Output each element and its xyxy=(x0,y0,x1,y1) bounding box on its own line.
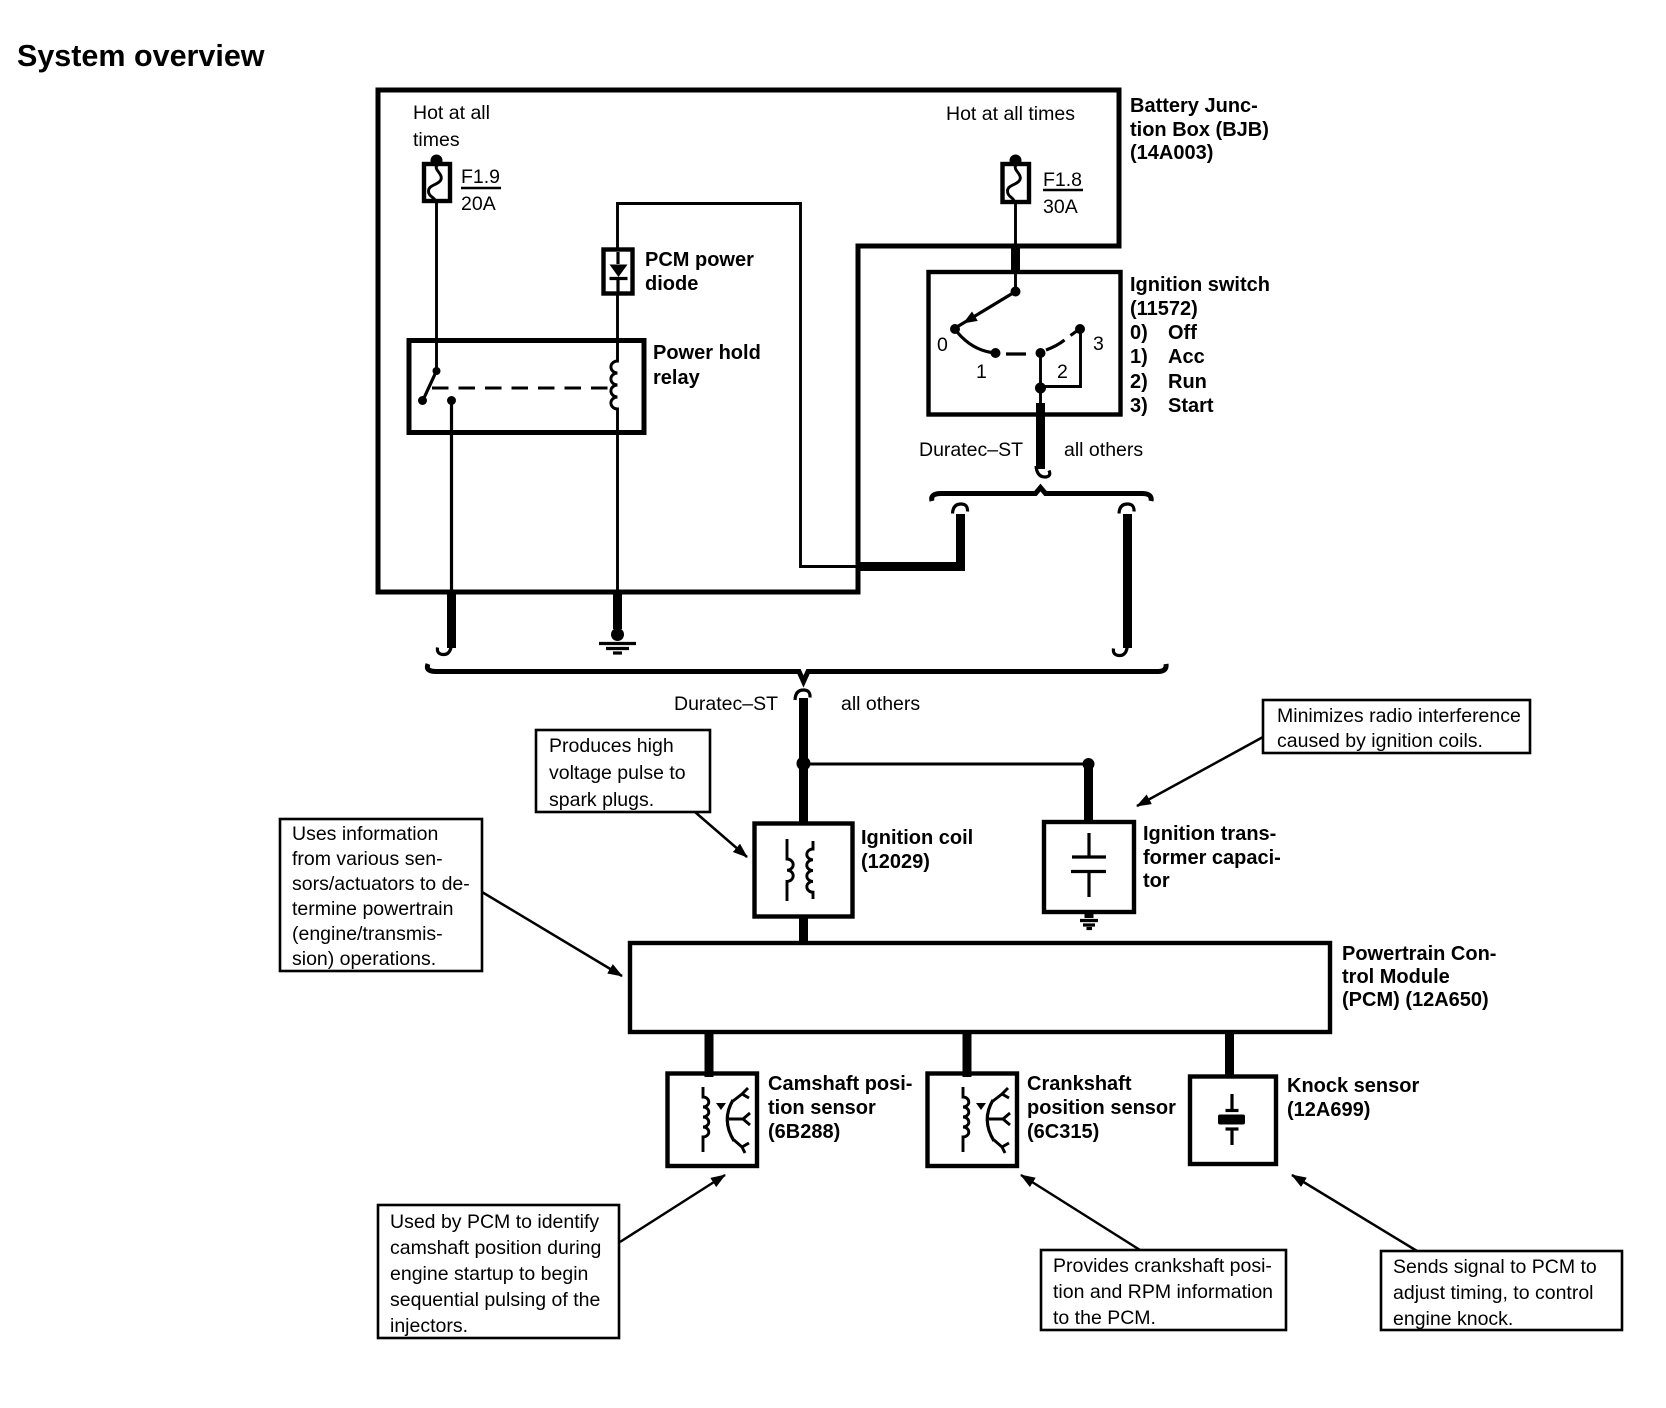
svg-text:tion sensor: tion sensor xyxy=(768,1097,876,1119)
svg-text:Start: Start xyxy=(1168,395,1214,417)
label Camshaft position sensor xyxy=(768,1073,912,1143)
value label F1.8 / 30A xyxy=(1043,169,1083,218)
svg-text:PCM power: PCM power xyxy=(645,249,754,271)
svg-text:3: 3 xyxy=(1093,333,1104,355)
Powertrain Control Module (PCM) box xyxy=(630,943,1330,1032)
svg-text:times: times xyxy=(413,129,460,151)
note: Used by PCM box xyxy=(378,1205,619,1338)
wire below output node xyxy=(1039,390,1042,404)
right branch thick wire xyxy=(1123,514,1132,648)
svg-text:Acc: Acc xyxy=(1168,346,1205,368)
crankshaft sensor pickup coil xyxy=(963,1087,969,1152)
label Power hold relay xyxy=(653,342,761,389)
svg-text:Crankshaft: Crankshaft xyxy=(1027,1073,1132,1095)
wire junction to capacitor branch xyxy=(804,763,1089,766)
svg-text:2): 2) xyxy=(1130,371,1148,393)
svg-text:former capaci-: former capaci- xyxy=(1143,847,1281,869)
svg-text:Knock sensor: Knock sensor xyxy=(1287,1075,1419,1097)
ignition switch SW1 box xyxy=(929,272,1121,415)
svg-text:relay: relay xyxy=(653,367,701,389)
fuse F1.8 xyxy=(1003,155,1030,203)
svg-text:trol Module: trol Module xyxy=(1342,966,1450,988)
camshaft sensor reluctor wheel xyxy=(716,1088,750,1153)
label Battery Junction Box xyxy=(1130,95,1269,164)
svg-text:1): 1) xyxy=(1130,346,1148,368)
thick wire to left branch xyxy=(858,562,965,571)
lower branch hook xyxy=(795,690,810,700)
relay switch arm xyxy=(424,373,436,399)
arrow note to crankshaft sensor xyxy=(1021,1175,1140,1250)
PCM power diode D1 xyxy=(604,250,633,294)
switch wiper arm xyxy=(956,292,1016,328)
thick wire to ignition coil xyxy=(799,768,808,824)
knock sensor piezo symbol xyxy=(1218,1094,1245,1145)
lower branch thick wire xyxy=(799,698,808,760)
svg-text:sequential pulsing of the: sequential pulsing of the xyxy=(390,1289,600,1311)
right branch bottom curl xyxy=(1113,644,1127,656)
svg-text:(6B288): (6B288) xyxy=(768,1121,840,1143)
svg-text:(PCM) (12A650): (PCM) (12A650) xyxy=(1342,989,1489,1011)
thick wire switch output down xyxy=(1036,403,1045,469)
coil primary winding xyxy=(787,839,793,901)
svg-text:Provides crankshaft posi-: Provides crankshaft posi- xyxy=(1053,1255,1272,1277)
svg-text:termine powertrain: termine powertrain xyxy=(292,898,453,920)
svg-text:(6C315): (6C315) xyxy=(1027,1121,1099,1143)
svg-text:Duratec–ST: Duratec–ST xyxy=(674,693,778,715)
switch travel dash near 3 xyxy=(1071,331,1078,336)
svg-text:Off: Off xyxy=(1168,322,1197,344)
Battery Junction Box (BJB) outline xyxy=(378,90,1119,592)
label PCM power diode xyxy=(645,249,754,295)
note: Provides crankshaft position box xyxy=(1041,1250,1286,1330)
svg-text:Produces high: Produces high xyxy=(549,735,674,757)
svg-text:engine startup to begin: engine startup to begin xyxy=(390,1263,588,1285)
label Crankshaft position sensor xyxy=(1027,1073,1176,1143)
svg-text:(12A699): (12A699) xyxy=(1287,1099,1370,1121)
svg-text:Minimizes radio interference: Minimizes radio interference xyxy=(1277,705,1521,727)
capacitor C1 symbol xyxy=(1071,833,1106,897)
svg-text:1: 1 xyxy=(976,361,987,383)
wire diode to relay coil xyxy=(616,293,619,342)
svg-text:Uses information: Uses information xyxy=(292,823,438,845)
wire fuse F1.8 down to BJB bottom xyxy=(1014,202,1017,247)
ground G1 xyxy=(599,628,636,653)
wire fuse F1.9 to relay xyxy=(435,201,438,368)
svg-text:from various sen-: from various sen- xyxy=(292,848,443,870)
svg-text:spark plugs.: spark plugs. xyxy=(549,789,654,811)
left branch hook xyxy=(953,504,968,514)
svg-text:Powertrain Con-: Powertrain Con- xyxy=(1342,943,1496,965)
relay contact pivot xyxy=(433,367,441,375)
crankshaft position sensor B2 box xyxy=(928,1074,1018,1167)
svg-text:engine knock.: engine knock. xyxy=(1393,1308,1513,1330)
ignition coil T1 box xyxy=(755,824,853,917)
wiper arrowhead xyxy=(963,312,978,324)
svg-text:sors/actuators to de-: sors/actuators to de- xyxy=(292,873,470,895)
camshaft position sensor B1 box xyxy=(668,1074,758,1167)
svg-text:Hot at all: Hot at all xyxy=(413,102,490,124)
value label F1.9 / 20A xyxy=(461,166,501,215)
wire from contact 2 down xyxy=(1039,355,1042,384)
left output thick wire below BJB xyxy=(447,592,456,648)
switch output node xyxy=(1035,383,1046,394)
note: Sends signal to PCM box xyxy=(1381,1251,1622,1330)
svg-text:0): 0) xyxy=(1130,322,1148,344)
svg-text:Power hold: Power hold xyxy=(653,342,761,364)
svg-text:Battery Junc-: Battery Junc- xyxy=(1130,95,1258,117)
bottom bus brace xyxy=(427,664,1166,682)
wire end curl xyxy=(1036,466,1050,477)
svg-text:30A: 30A xyxy=(1043,196,1078,218)
wire PCM to crankshaft sensor xyxy=(963,1032,972,1077)
relay coil L1 xyxy=(611,342,618,433)
PCM power diode wire loop (diode top to brace branch) xyxy=(618,204,860,567)
switch contact 0 xyxy=(950,324,960,334)
label Knock sensor (12A699) xyxy=(1287,1075,1419,1121)
svg-text:Ignition trans-: Ignition trans- xyxy=(1143,823,1276,845)
arrow note to knock sensor xyxy=(1292,1175,1417,1251)
svg-text:(11572): (11572) xyxy=(1130,298,1198,320)
crankshaft sensor reluctor wheel xyxy=(976,1088,1010,1153)
switch input node xyxy=(1011,287,1021,297)
switch contact 2 xyxy=(1036,348,1046,358)
svg-text:sion) operations.: sion) operations. xyxy=(292,948,436,970)
svg-text:position sensor: position sensor xyxy=(1027,1097,1176,1119)
arrow note to camshaft sensor xyxy=(620,1175,725,1242)
svg-text:System overview: System overview xyxy=(17,39,265,73)
svg-text:tion and RPM information: tion and RPM information xyxy=(1053,1281,1273,1303)
arrow note to ignition coil xyxy=(695,812,747,857)
svg-text:(14A003): (14A003) xyxy=(1130,142,1213,164)
camshaft sensor pickup coil xyxy=(703,1087,709,1152)
note: Uses information box xyxy=(280,819,482,971)
thick wire BJB to ignition switch xyxy=(1011,246,1020,273)
svg-text:Ignition switch: Ignition switch xyxy=(1130,274,1270,296)
arrow note to PCM xyxy=(482,892,622,976)
right branch hook xyxy=(1119,504,1134,514)
svg-text:all others: all others xyxy=(841,693,920,715)
coil secondary winding xyxy=(807,841,813,899)
svg-text:3): 3) xyxy=(1130,395,1148,417)
wire relay output down xyxy=(450,403,453,593)
svg-text:to the PCM.: to the PCM. xyxy=(1053,1307,1156,1329)
svg-text:camshaft position during: camshaft position during xyxy=(390,1237,601,1259)
switch travel arc 2 to 3 xyxy=(1046,340,1065,350)
knock sensor B3 box xyxy=(1190,1077,1276,1165)
switch travel arc 0 to 1 xyxy=(958,333,992,353)
svg-text:diode: diode xyxy=(645,273,698,295)
wire PCM to knock sensor xyxy=(1225,1032,1234,1077)
svg-text:Camshaft posi-: Camshaft posi- xyxy=(768,1073,912,1095)
svg-text:injectors.: injectors. xyxy=(390,1315,468,1337)
svg-text:(12029): (12029) xyxy=(861,851,930,873)
thick wire to capacitor xyxy=(1084,768,1093,823)
svg-text:20A: 20A xyxy=(461,193,496,215)
wire coil to PCM xyxy=(799,916,808,944)
relay actuation dashed link xyxy=(432,387,616,390)
svg-text:F1.9: F1.9 xyxy=(461,166,500,188)
left output end curl xyxy=(437,643,451,655)
wire from contact 3 xyxy=(1045,332,1081,387)
svg-text:0: 0 xyxy=(937,334,948,356)
switch travel dash 1 to 2 xyxy=(1006,352,1026,355)
arrow note to capacitor xyxy=(1137,737,1263,806)
note: Produces high voltage pulse box xyxy=(536,730,710,812)
junction node A xyxy=(797,757,811,771)
wire PCM to camshaft sensor xyxy=(705,1032,714,1077)
svg-text:tion Box (BJB): tion Box (BJB) xyxy=(1130,119,1269,141)
svg-text:2: 2 xyxy=(1057,361,1068,383)
label Powertrain Control Module xyxy=(1342,943,1496,1011)
label Ignition transformer capacitor xyxy=(1143,823,1281,892)
svg-text:Duratec–ST: Duratec–ST xyxy=(919,439,1023,461)
wire relay coil to ground xyxy=(616,433,619,593)
svg-text:Run: Run xyxy=(1168,371,1207,393)
switch contact 1 xyxy=(991,348,1001,358)
ground wire below BJB xyxy=(613,592,622,629)
capacitor branch node xyxy=(1083,758,1095,770)
svg-text:Hot at all times: Hot at all times xyxy=(946,103,1075,125)
power hold relay K1 box xyxy=(409,341,644,433)
svg-text:all others: all others xyxy=(1064,439,1143,461)
svg-text:Ignition coil: Ignition coil xyxy=(861,827,973,849)
label Ignition coil (12029) xyxy=(861,827,973,873)
left branch thick wire xyxy=(956,514,965,567)
svg-text:caused by ignition coils.: caused by ignition coils. xyxy=(1277,730,1483,752)
switch input wire xyxy=(1014,273,1017,291)
note: Minimizes radio interference box xyxy=(1263,700,1530,753)
svg-text:adjust timing, to control: adjust timing, to control xyxy=(1393,1282,1594,1304)
ignition transformer capacitor C1 box xyxy=(1044,822,1134,912)
svg-text:tor: tor xyxy=(1143,870,1170,892)
fuse F1.9 xyxy=(424,155,450,202)
svg-text:F1.8: F1.8 xyxy=(1043,169,1082,191)
svg-text:(engine/transmis-: (engine/transmis- xyxy=(292,923,443,945)
relay output contact xyxy=(447,396,456,405)
split brace (upper) xyxy=(932,488,1151,502)
switch contact 3 xyxy=(1075,324,1085,334)
svg-text:voltage pulse to: voltage pulse to xyxy=(549,762,686,784)
label Ignition switch xyxy=(1130,274,1270,417)
ground under capacitor xyxy=(1080,912,1098,929)
svg-text:Used by PCM to identify: Used by PCM to identify xyxy=(390,1211,599,1233)
svg-text:Sends signal to PCM to: Sends signal to PCM to xyxy=(1393,1256,1597,1278)
